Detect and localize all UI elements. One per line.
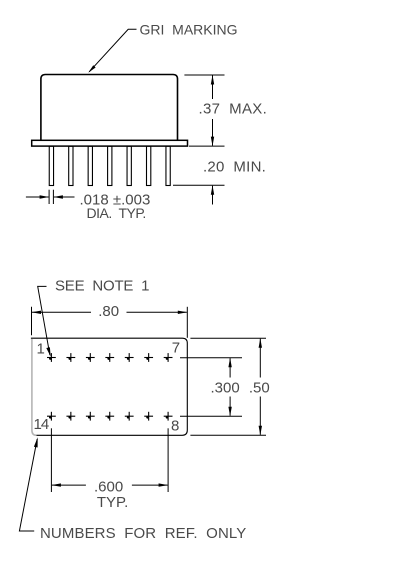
- pin 1 (side view): [49, 146, 53, 185]
- svg-text:1: 1: [37, 340, 45, 357]
- svg-text:TYP.: TYP.: [97, 494, 128, 511]
- extension line body top: [184, 74, 224, 76]
- svg-text:GRI MARKING: GRI MARKING: [140, 21, 238, 37]
- dimension .20 MIN (arrow below pin tip line): [211, 185, 214, 204]
- pin 2 mark: [66, 353, 75, 362]
- dimension .018 pin diameter: [26, 190, 75, 204]
- pin 9 mark: [144, 412, 153, 421]
- pin 7 (side view): [166, 146, 170, 185]
- SEE NOTE 1 leader: [38, 286, 51, 356]
- dimension .80 extension line right: [186, 307, 188, 338]
- extension line outline top (right): [190, 337, 266, 339]
- pin 1 mark: [47, 353, 56, 362]
- extension line row 2 (right): [180, 415, 242, 417]
- pin 4 (side view): [108, 146, 112, 185]
- svg-text:8: 8: [171, 418, 179, 435]
- extension line row 1 (right): [180, 357, 242, 359]
- pin 3 (side view): [88, 146, 92, 185]
- package body (side view): [41, 75, 178, 141]
- GRI MARKING leader: [88, 29, 136, 73]
- dimension .80: [32, 311, 188, 314]
- svg-text:.20 MIN.: .20 MIN.: [203, 159, 266, 176]
- svg-text:.300: .300: [211, 379, 240, 396]
- extension line pin tips: [173, 184, 225, 186]
- dimension .300: [228, 358, 231, 417]
- package outline left edge (bottom view, gray): [32, 339, 37, 435]
- pin 14 mark: [47, 412, 56, 421]
- pin 8 mark: [164, 412, 173, 421]
- svg-text:.600: .600: [94, 479, 123, 496]
- pin 10 mark: [125, 412, 134, 421]
- pin 3 mark: [86, 353, 95, 362]
- extension line outline bottom (right): [190, 434, 266, 436]
- svg-text:SEE NOTE 1: SEE NOTE 1: [55, 277, 149, 294]
- pin 5 mark: [125, 353, 134, 362]
- extension line flange bottom: [189, 145, 225, 147]
- package outline (bottom view, black sides): [31, 338, 187, 435]
- pin 13 mark: [66, 412, 75, 421]
- pin 5 (side view): [127, 146, 131, 185]
- NUMBERS FOR REF. ONLY leader: [19, 437, 37, 531]
- pin 4 mark: [105, 353, 114, 362]
- svg-text:14: 14: [34, 416, 49, 433]
- svg-text:.37 MAX.: .37 MAX.: [199, 101, 268, 118]
- dimension .50: [259, 338, 262, 435]
- svg-text:.80: .80: [98, 303, 119, 320]
- pin 7 mark: [164, 353, 173, 362]
- pin 6 mark: [144, 353, 153, 362]
- svg-text:.50: .50: [249, 379, 270, 396]
- svg-text:NUMBERS FOR REF. ONLY: NUMBERS FOR REF. ONLY: [40, 525, 246, 542]
- pin 2 (side view): [69, 146, 73, 185]
- dimension .37 MAX: [211, 75, 214, 146]
- pin 6 (side view): [147, 146, 151, 185]
- dimension .600 extension line left: [50, 428, 52, 492]
- dimension .80 extension line left: [31, 307, 33, 336]
- dimension .600: [51, 483, 168, 486]
- dimension .600 extension line right: [167, 428, 169, 492]
- svg-text:DIA. TYP.: DIA. TYP.: [87, 205, 146, 221]
- package flange (side view): [32, 140, 188, 146]
- svg-text:7: 7: [172, 339, 180, 356]
- pin 11 mark: [105, 412, 114, 421]
- pin 12 mark: [86, 412, 95, 421]
